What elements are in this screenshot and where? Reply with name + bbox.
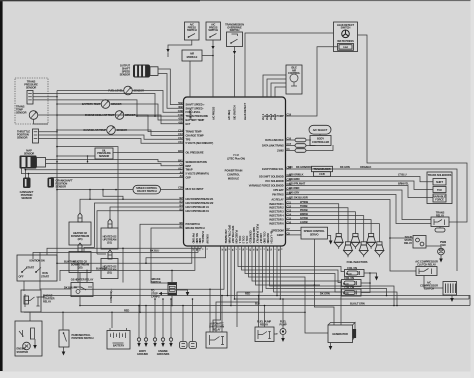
- svg-text:P/N TRKS: P/N TRKS: [272, 193, 284, 197]
- wire HO2 downstream 2/1 to PCM: [80, 199, 184, 213]
- wire ignition switch to starter relay: [23, 281, 25, 291]
- svg-text:EVAP PURGE SOL: EVAP PURGE SOL: [262, 167, 284, 171]
- svg-text:A/C SELECT: A/C SELECT: [313, 128, 328, 132]
- svg-text:C30 PPL/WHT: C30 PPL/WHT: [289, 182, 306, 186]
- svg-text:SWITCH: SWITCH: [230, 28, 240, 32]
- svg-text:SHAFT SPEED +: SHAFT SPEED +: [186, 103, 206, 107]
- module air module: [182, 50, 202, 61]
- ground speed control servo: [329, 241, 333, 245]
- sensor B13 heated O2 downstream 2/1: [78, 213, 82, 222]
- wire injector 4 feed: [286, 216, 364, 242]
- wire gent to servo: [286, 234, 302, 236]
- svg-text:COIL 2: COIL 2: [241, 236, 245, 244]
- svg-text:ECT: ECT: [186, 122, 191, 126]
- wire solid state relay to fan: [426, 246, 441, 248]
- wire stub from sc bus down 2: [103, 190, 123, 200]
- wire a/c select to body controller: [319, 134, 321, 135]
- svg-text:MODULE: MODULE: [228, 177, 240, 181]
- svg-text:BR/DB: BR/DB: [300, 212, 308, 216]
- svg-text:CLUTCH: CLUTCH: [424, 287, 434, 291]
- svg-text:FUSED IGN: FUSED IGN: [234, 230, 238, 243]
- svg-text:W/LTD PRESS: W/LTD PRESS: [337, 39, 354, 43]
- svg-text:TRANS SOLENOIDS: TRANS SOLENOIDS: [428, 173, 452, 177]
- connector C3 data link transmit: [286, 145, 296, 147]
- wire sensor feed column: [56, 91, 58, 264]
- svg-text:IAC 2: IAC 2: [265, 113, 269, 120]
- wire pnp switch from battery bus: [62, 312, 64, 330]
- battery G1: [107, 331, 130, 350]
- wire charge air temp left: [57, 129, 107, 131]
- svg-text:RELAY: RELAY: [404, 241, 412, 245]
- injector INJ6: [377, 242, 382, 245]
- motor M2 engine starter: [15, 321, 42, 356]
- svg-text:GROUND: GROUND: [137, 352, 148, 356]
- ground brake circuit: [186, 292, 190, 296]
- svg-text:BLK/WHT: BLK/WHT: [96, 267, 108, 271]
- svg-text:PCM: PCM: [233, 153, 239, 157]
- svg-text:SENSOR: SENSOR: [21, 196, 32, 200]
- wire injector 5 feed: [286, 220, 372, 234]
- wire cam sensor to tmap line: [25, 170, 27, 178]
- wire IAC pin4 to PCM top: [275, 87, 286, 97]
- wire shaft speed + to PCM: [158, 69, 184, 105]
- wire variable force solenoid: [286, 186, 434, 198]
- svg-text:INJECTOR 3: INJECTOR 3: [269, 210, 284, 214]
- wire coil 1 feed from PCM: [238, 246, 345, 272]
- wire ignition second feed: [47, 248, 123, 255]
- PCM U1 powertrain control module: [184, 97, 286, 246]
- wire TPS 5v to column: [39, 131, 58, 133]
- wire bus ignition feed: [33, 246, 198, 259]
- svg-text:GY/DB: GY/DB: [300, 216, 308, 220]
- injector INJ4: [361, 242, 366, 245]
- svg-text:C29 BRN: C29 BRN: [289, 177, 300, 181]
- node A/C select: [309, 125, 331, 134]
- wire extra pcm bottom pin D: [279, 247, 281, 300]
- svg-text:(PLUG): (PLUG): [346, 274, 352, 276]
- wire HO2 downstream 2/2 to PCM: [84, 203, 184, 252]
- wire trans temp bottom stub: [34, 119, 49, 124]
- svg-text:BRN/YEL: BRN/YEL: [398, 182, 409, 186]
- svg-text:UPS BAT: UPS BAT: [273, 188, 284, 192]
- wire trans pressure 5v to sensor feed column: [33, 96, 57, 98]
- svg-text:TN/DB: TN/DB: [300, 204, 308, 208]
- ground generator: [330, 343, 332, 347]
- connector C100 pair: [180, 342, 188, 349]
- ground stud engine ground 3: [170, 299, 172, 338]
- wire MAP 5v primary stub down: [22, 169, 184, 174]
- svg-text:TMAP: TMAP: [186, 168, 193, 172]
- switch S1 A/C high pressure switch: [185, 22, 200, 40]
- injector INJ2: [345, 242, 350, 245]
- ground stud engine ground 1: [154, 299, 156, 338]
- svg-text:GENT: GENT: [277, 233, 284, 237]
- svg-text:(2/1): (2/1): [78, 237, 83, 241]
- frame: right light strip: [471, 0, 474, 378]
- svg-text:HO2 UPSTREAM 2/1: HO2 UPSTREAM 2/1: [186, 209, 210, 213]
- svg-text:FUEL PUMP RLY: FUEL PUMP RLY: [255, 224, 259, 244]
- svg-text:CONTROL: CONTROL: [227, 173, 240, 177]
- svg-text:SPEED CONTROL: SPEED CONTROL: [304, 229, 326, 233]
- svg-text:CHARGE TEMP: CHARGE TEMP: [186, 133, 204, 137]
- wire bus B2 (pcm sig gnd): [60, 246, 195, 281]
- wire O2 heater relay top pin 1 to bus: [77, 263, 79, 282]
- node transducer label: [312, 166, 333, 171]
- svg-text:SENSOR: SENSOR: [120, 73, 131, 77]
- svg-text:C28 OR/BLK: C28 OR/BLK: [289, 173, 304, 177]
- wire coil 2 feed from PCM: [242, 246, 342, 283]
- svg-text:POWERTRAIN: POWERTRAIN: [225, 169, 243, 173]
- wire coil 3 feed from PCM: [245, 246, 342, 292]
- wire battery positive up to bus: [111, 312, 113, 328]
- ground engine starter internal: [34, 339, 36, 345]
- connector C2 data link receive: [286, 139, 296, 141]
- svg-text:VARIABLE FORCE SOLENOID: VARIABLE FORCE SOLENOID: [249, 184, 284, 188]
- switch S6 ignition switch: [17, 255, 57, 281]
- switch S7 park/neutral position switch: [59, 330, 69, 347]
- wire stub from sc bus down 1: [89, 190, 91, 200]
- svg-text:TCC: TCC: [437, 188, 442, 192]
- svg-text:CONTROL: CONTROL: [288, 71, 301, 75]
- wire ASD relay pin up 1: [209, 289, 211, 332]
- sensor B2 trans pressure sensor (dashed assembly): [15, 78, 48, 124]
- wire bus fused b+ main: [38, 246, 228, 297]
- wire extra pcm bottom pin B: [274, 247, 398, 306]
- wire brake switch right to ground: [177, 290, 188, 292]
- svg-text:SWITCH: SWITCH: [208, 28, 218, 32]
- svg-text:SERVO: SERVO: [310, 233, 319, 237]
- svg-text:TPS: TPS: [186, 137, 191, 141]
- wire TPS return to PCM: [39, 139, 184, 144]
- svg-text:WT/DB: WT/DB: [300, 200, 308, 204]
- wire fuel level to PCM: [132, 91, 183, 113]
- svg-text:MODULE: MODULE: [187, 55, 198, 59]
- wire ups bat to trans relay: [286, 190, 432, 220]
- svg-text:STARTER: STARTER: [17, 350, 29, 354]
- svg-text:FUEL INJECTORS: FUEL INJECTORS: [347, 260, 368, 264]
- connector arrow under S1 wire: [166, 49, 169, 52]
- svg-text:POSITION SWITCH: POSITION SWITCH: [72, 336, 94, 340]
- wire servo right to ground: [328, 236, 331, 241]
- svg-text:DK BLU/PK: DK BLU/PK: [64, 286, 77, 290]
- ground pwm fan: [440, 255, 442, 259]
- svg-text:LT BLU: LT BLU: [398, 173, 407, 177]
- svg-text:IAC 1: IAC 1: [261, 113, 265, 120]
- svg-text:SWITCH: SWITCH: [187, 28, 197, 32]
- wire MAP sensor return to PCM: [46, 160, 184, 162]
- wire inj pwr drop: [266, 246, 387, 296]
- svg-text:BRAKE SWITCH: BRAKE SWITCH: [186, 226, 205, 230]
- svg-text:HO2 DOWNSTREAM 2/2: HO2 DOWNSTREAM 2/2: [186, 201, 214, 205]
- ground stud body ground 2: [145, 306, 147, 339]
- wire fuel pump relay to pump link: [274, 333, 277, 334]
- frame: bottom light strip: [0, 372, 474, 378]
- svg-text:SENSOR: SENSOR: [26, 86, 37, 90]
- svg-text:FUSED B+: FUSED B+: [201, 231, 205, 244]
- wire battery temp to PCM: [110, 104, 184, 120]
- wire speedom to servo: [286, 230, 302, 232]
- wire crank sensor ckp to PCM: [51, 177, 184, 179]
- svg-text:INJECTOR 2: INJECTOR 2: [269, 206, 284, 210]
- wire injector 3 feed: [286, 212, 356, 234]
- wire bus fused b+: [123, 246, 201, 283]
- svg-text:CLUTCH RELAY: CLUTCH RELAY: [417, 262, 436, 266]
- wire air module to PCM top: [189, 61, 191, 97]
- svg-text:(JTEC Plus ON): (JTEC Plus ON): [227, 157, 245, 161]
- wire LDP switch left to PCM top (leak detect): [245, 33, 334, 97]
- svg-text:ASD RLY: ASD RLY: [259, 233, 263, 244]
- ground pnp switch: [63, 347, 65, 352]
- wire coil returns junction: [361, 273, 370, 293]
- switch S5 speed control on-off switch: [133, 185, 161, 194]
- svg-text:RED: RED: [124, 309, 129, 313]
- svg-text:CKP: CKP: [186, 176, 192, 180]
- svg-text:C135: C135: [319, 172, 325, 176]
- svg-text:DK GRN/ORG: DK GRN/ORG: [296, 165, 312, 169]
- wire shaft speed - to PCM: [158, 74, 184, 109]
- wire coil pwr drop: [270, 246, 395, 306]
- svg-text:INJECTOR 6: INJECTOR 6: [269, 222, 284, 226]
- ground A/C clutch: [451, 295, 453, 298]
- svg-text:(PLUG): (PLUG): [343, 293, 349, 295]
- wire clutch relay to clutch: [424, 276, 443, 289]
- wire bus B1 (pcm pwr gnd): [57, 246, 192, 263]
- svg-text:HO2 UPSTREAM 1/1: HO2 UPSTREAM 1/1: [186, 205, 210, 209]
- wire brake switch from PCM: [151, 228, 184, 283]
- svg-text:J1962: J1962: [277, 149, 284, 153]
- module speed control servo: [301, 227, 328, 239]
- svg-text:SENSOR: SENSOR: [17, 136, 28, 140]
- svg-text:INJECTOR 4: INJECTOR 4: [269, 214, 284, 218]
- sensor B12 oil pressure sensor: [95, 148, 113, 159]
- wire trans pressure return: [33, 100, 137, 116]
- svg-text:SENSOR: SENSOR: [99, 154, 110, 158]
- svg-text:DATA LINK REC: DATA LINK REC: [265, 138, 284, 142]
- sensor B7 crankshaft position sensor: [48, 178, 55, 188]
- wire battery bus: [24, 311, 305, 313]
- wire extra pcm bottom pin A: [213, 247, 221, 333]
- svg-text:RELAY: RELAY: [212, 328, 220, 332]
- svg-text:ASD SENSE: ASD SENSE: [224, 229, 228, 243]
- wire ECT left: [57, 114, 115, 116]
- wire injector 6 feed: [286, 224, 380, 242]
- wire injector 2 feed: [286, 208, 349, 242]
- svg-text:HO2 DOWNSTREAM 2/1: HO2 DOWNSTREAM 2/1: [186, 197, 214, 201]
- svg-text:OFF: OFF: [19, 275, 24, 279]
- svg-text:GEN FIELD: GEN FIELD: [248, 230, 252, 243]
- svg-text:5 VOLTS (SECONDARY): 5 VOLTS (SECONDARY): [186, 141, 214, 145]
- wire bus asd output: [235, 246, 470, 299]
- svg-text:GENERATOR: GENERATOR: [332, 332, 348, 336]
- sensor B16 heated O2 upstream 2/1: [108, 250, 112, 259]
- module body controller: [310, 136, 331, 146]
- svg-text:A/C REQ: A/C REQ: [227, 110, 231, 120]
- svg-text:TRANS TEMP: TRANS TEMP: [186, 130, 202, 134]
- switch S4 leak detect pump switch: [334, 22, 358, 52]
- svg-text:SWITCH: SWITCH: [151, 280, 161, 284]
- ground coils: [370, 273, 377, 277]
- injector INJ3: [353, 234, 358, 237]
- wire bus ground distribution: [80, 246, 231, 306]
- switch S2 A/C low pressure switch: [206, 22, 221, 40]
- wire HO2 upstream 2/1 to PCM: [97, 211, 184, 254]
- wire brake switch bottom drop: [171, 296, 173, 306]
- svg-text:C20: C20: [288, 165, 293, 169]
- svg-text:MUX S/C INPUT: MUX S/C INPUT: [186, 187, 205, 191]
- wire fuel pump feed: [282, 299, 284, 329]
- frame: top dark line: [0, 0, 474, 1]
- svg-text:5 VOLTS (PRIMARY): 5 VOLTS (PRIMARY): [186, 172, 209, 176]
- svg-text:C45 GRY: C45 GRY: [289, 191, 300, 195]
- svg-text:COIL 3: COIL 3: [245, 236, 249, 244]
- svg-text:DK GRN: DK GRN: [340, 165, 350, 169]
- wire gen field 1 from PCM bottom: [249, 246, 329, 333]
- svg-text:SHIFT: SHIFT: [436, 180, 444, 184]
- svg-text:DK BLU: DK BLU: [150, 249, 159, 253]
- solenoid box trans solenoids: [427, 172, 452, 204]
- wire air module right to S2 drop: [202, 55, 213, 57]
- svg-text:INJ PWR: INJ PWR: [266, 233, 270, 243]
- svg-text:BLK/TAN: BLK/TAN: [64, 259, 75, 263]
- wire od shift solenoid: [286, 177, 434, 182]
- svg-text:FUEL LEVEL: FUEL LEVEL: [186, 110, 201, 114]
- svg-text:AC RELAY: AC RELAY: [271, 198, 284, 202]
- svg-text:AIR MOD: AIR MOD: [188, 109, 192, 120]
- wire brake switch to stop lamps arrow: [162, 293, 168, 295]
- wire ASD relay pin up 3: [221, 296, 223, 333]
- wire HO2 upstream 1/1 to PCM: [110, 207, 184, 219]
- svg-text:PUMP: PUMP: [343, 47, 349, 49]
- svg-text:IGN SW: IGN SW: [206, 234, 210, 244]
- svg-text:OIL PRESSURE: OIL PRESSURE: [186, 151, 204, 155]
- wire connector drops: [182, 306, 184, 342]
- wire servo bottom to generator: [314, 239, 334, 325]
- svg-text:CONTROLLER: CONTROLLER: [312, 140, 329, 144]
- svg-text:GEN SOURCE: GEN SOURCE: [252, 227, 256, 244]
- svg-text:ORG/BLK: ORG/BLK: [360, 165, 371, 169]
- wire right edge drops to bus: [468, 296, 470, 300]
- wire oil pressure return left: [88, 155, 96, 157]
- wire starter relay bottom to battery bus: [23, 311, 25, 313]
- wire fuel pump relay pins up: [258, 296, 260, 328]
- wire brake switch top to bus: [171, 270, 173, 282]
- svg-text:COIL GND: COIL GND: [262, 231, 266, 243]
- wire from S1 to connector arrow: [168, 40, 192, 49]
- svg-text:SENSOR: SENSOR: [16, 111, 27, 115]
- wire O2 heater relay top pin 2 to bus: [86, 270, 88, 282]
- frame: left black bar: [0, 0, 3, 371]
- wire speed control switch to PCM: [161, 188, 184, 191]
- svg-text:SPD CTRL PWR: SPD CTRL PWR: [227, 225, 231, 244]
- wire IAC pin1 to PCM top: [263, 75, 286, 97]
- svg-text:B+ LATCH: B+ LATCH: [269, 231, 273, 243]
- svg-text:PK/DB: PK/DB: [300, 208, 308, 212]
- wire MAP sig to PCM: [46, 164, 184, 166]
- wire cam sensor to 5v line: [28, 174, 30, 178]
- svg-text:ON-OFF SWITCH: ON-OFF SWITCH: [137, 189, 157, 193]
- svg-text:FORCE: FORCE: [435, 197, 444, 201]
- svg-text:BATTERY: BATTERY: [113, 344, 125, 348]
- svg-text:BLK: BLK: [255, 302, 260, 306]
- svg-text:AIR: AIR: [190, 52, 194, 56]
- svg-text:LG/DB: LG/DB: [300, 220, 308, 224]
- svg-text:COIL 1: COIL 1: [238, 236, 242, 244]
- svg-text:RUN: RUN: [42, 271, 48, 275]
- wire speed control switch left bus: [57, 189, 133, 191]
- svg-text:P/N SWITCH: P/N SWITCH: [186, 222, 201, 226]
- wire ASD relay pin up 2: [216, 246, 259, 332]
- wire gen field 2 from PCM bottom: [252, 246, 341, 325]
- wire LDP switch right long loop to trans relay: [358, 35, 468, 222]
- wire TPS sig to PCM: [39, 135, 184, 139]
- svg-text:IAC 3: IAC 3: [269, 113, 273, 120]
- svg-text:SPD CTRL RET: SPD CTRL RET: [231, 226, 235, 244]
- svg-text:(1/1): (1/1): [107, 241, 112, 245]
- wire MAP tmap stub down: [25, 169, 184, 170]
- motor M1 idle air control: [286, 65, 302, 94]
- wire gen sense from PCM bottom: [256, 246, 321, 285]
- svg-text:SHAFT SPEED -: SHAFT SPEED -: [186, 106, 205, 110]
- wire starter relay right to bus: [41, 296, 44, 298]
- wire IAC pin3 to PCM top: [271, 83, 286, 97]
- svg-text:IGNITION ON: IGNITION ON: [29, 259, 44, 263]
- wire bus ign sw run: [146, 246, 206, 263]
- svg-text:(PLUG): (PLUG): [343, 284, 349, 286]
- wire from S3 to PCM top with connector arrow: [234, 47, 236, 52]
- wire IAC pin2 to PCM top: [267, 79, 286, 97]
- svg-text:MAP: MAP: [186, 164, 192, 168]
- svg-text:C38: C38: [178, 186, 183, 190]
- wire vcc solenoid: [286, 181, 434, 190]
- relay K2 engine starter relay: [21, 290, 41, 312]
- wire battery temp left: [57, 103, 101, 105]
- wire LDP pump to PCM right pin: [286, 47, 338, 116]
- ground stud engine ground 2: [162, 299, 164, 338]
- wire trans pressure sig to PCM: [33, 94, 184, 117]
- wire evap purge solenoid from PCM: [286, 169, 458, 271]
- svg-text:START: START: [41, 275, 49, 279]
- svg-text:LEAK DETECT: LEAK DETECT: [243, 102, 247, 120]
- wire extra pcm bottom pin C: [276, 247, 278, 296]
- sensor B14 heated O2 downstream 2/2: [78, 243, 82, 252]
- sensor B6 camshaft position sensor: [23, 178, 31, 189]
- wire charge air temp to PCM: [115, 130, 183, 135]
- svg-text:RELAY: RELAY: [43, 300, 51, 304]
- ground fuel pump: [282, 335, 284, 339]
- svg-text:O/D SWITCH: O/D SWITCH: [233, 105, 237, 120]
- svg-text:BATTERY TEMP: BATTERY TEMP: [186, 118, 205, 122]
- svg-text:TRANSDUCER: TRANSDUCER: [313, 167, 330, 171]
- wire injector 1 feed: [286, 204, 339, 234]
- svg-text:A/C PRESS: A/C PRESS: [211, 107, 215, 120]
- ground stud body ground 1: [138, 306, 140, 339]
- svg-text:INJECTOR 5: INJECTOR 5: [269, 218, 284, 222]
- connector C4 J1962: [286, 150, 296, 152]
- svg-text:C21 DK BLU/OR: C21 DK BLU/OR: [289, 196, 308, 200]
- wire bus right b+: [228, 296, 471, 306]
- svg-text:(2/1): (2/1): [107, 271, 112, 275]
- svg-text:O2 HEATER RELAY: O2 HEATER RELAY: [71, 278, 94, 282]
- svg-text:BLK/LT GRN: BLK/LT GRN: [350, 302, 365, 306]
- svg-text:VCC SOLENOID: VCC SOLENOID: [265, 179, 284, 183]
- svg-text:RED: RED: [245, 292, 250, 296]
- generator G2: [328, 325, 353, 343]
- wire ac relay pin to solid state relay and clutch relay: [286, 200, 417, 272]
- wire bus asd sense: [80, 246, 224, 289]
- svg-text:INJECTOR 1: INJECTOR 1: [269, 202, 284, 206]
- svg-text:SENSOR: SENSOR: [24, 152, 35, 156]
- wire P/N switch line from PCM: [140, 224, 184, 312]
